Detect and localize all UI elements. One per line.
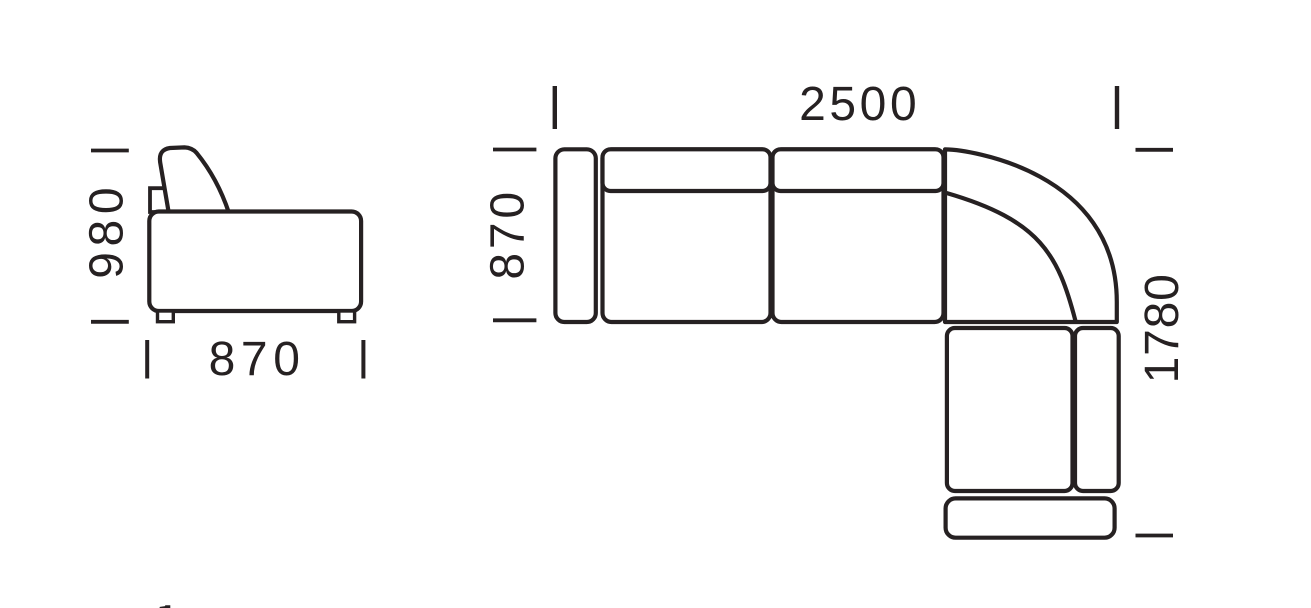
dimension 1780: bottom tick bbox=[1136, 534, 1174, 538]
top view: corner inner arc bbox=[947, 193, 1076, 321]
dimension 980: bottom tick bbox=[91, 320, 129, 324]
dimension 980: top tick bbox=[91, 149, 129, 153]
top view: backrest strip 1 bbox=[603, 149, 771, 191]
top view: corner piece outline bbox=[945, 149, 1117, 322]
side view: backrest cushion bbox=[160, 147, 229, 212]
svg-text:870: 870 bbox=[209, 333, 306, 386]
top view: chaise backrest strip bbox=[1075, 328, 1119, 491]
dimension 870 (top view): top tick bbox=[493, 148, 536, 152]
svg-text:1780: 1780 bbox=[1136, 273, 1189, 383]
side view: right foot bbox=[339, 311, 355, 322]
svg-text:870: 870 bbox=[482, 188, 535, 280]
side view: left foot bbox=[158, 311, 174, 322]
dimension 870 (side view): right tick bbox=[361, 340, 365, 379]
top view: chaise armrest bbox=[946, 498, 1115, 537]
svg-text:980: 980 bbox=[80, 182, 133, 279]
top view: left armrest bbox=[555, 149, 595, 322]
partial glyph cut off at bottom edge bbox=[160, 605, 171, 608]
dimension 2500: right tick bbox=[1115, 86, 1119, 129]
dimension 870 (top view): bottom tick bbox=[493, 318, 536, 322]
side view: body bbox=[149, 212, 361, 312]
side view: back panel bbox=[150, 188, 165, 212]
top view: seat 2 bbox=[773, 149, 944, 322]
top view: seat 1 bbox=[603, 149, 771, 322]
svg-text:2500: 2500 bbox=[799, 78, 920, 131]
dimension 870 (side view): left tick bbox=[145, 340, 149, 379]
dimension 1780: top tick bbox=[1136, 148, 1174, 152]
dimension 2500: left tick bbox=[553, 86, 557, 129]
top view: chaise seat bbox=[947, 328, 1073, 491]
top view: backrest strip 2 bbox=[773, 149, 944, 191]
